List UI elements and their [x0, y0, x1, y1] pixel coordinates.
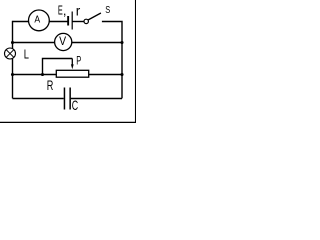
border right edge — [135, 0, 137, 123]
rheostat R body — [56, 70, 88, 77]
ammeter A — [29, 10, 50, 31]
svg-text:L: L — [24, 48, 29, 62]
svg-text:P: P — [76, 54, 81, 68]
wire voltmeter branch left — [13, 42, 55, 44]
wire left side upper (corner to lamp) — [12, 21, 14, 49]
wire left side lower (lamp to bottom corner) — [12, 59, 14, 99]
switch S lever — [88, 13, 101, 20]
svg-text:C: C — [72, 97, 78, 113]
node dot left voltmeter junction — [11, 41, 14, 44]
wire wiper connector — [43, 59, 73, 75]
wire bottom left segment — [13, 98, 64, 100]
svg-text:r: r — [76, 3, 81, 19]
svg-text:S: S — [105, 4, 110, 16]
svg-text:A: A — [34, 14, 40, 26]
node dot right voltmeter junction — [120, 41, 123, 44]
node dot wiper riser junction — [41, 73, 44, 76]
wire rheostat branch left — [13, 74, 57, 76]
switch S hinge — [84, 19, 88, 23]
svg-text:,: , — [63, 3, 67, 18]
capacitor C left plate — [64, 88, 65, 110]
wire bottom right segment — [71, 98, 122, 100]
wire top left segment — [13, 21, 29, 23]
lamp L — [5, 48, 16, 59]
node dot right rheostat junction — [120, 73, 123, 76]
wire voltmeter branch right — [72, 42, 122, 44]
capacitor C right plate — [69, 88, 71, 110]
battery E,r : long thin plate — [72, 12, 73, 30]
wire rheostat branch right — [89, 74, 122, 76]
wire ammeter to battery — [49, 21, 68, 23]
battery E,r : short thick plate — [67, 16, 69, 26]
wire switch to top-right corner and down right side — [102, 22, 122, 99]
rheostat wiper arrow P — [71, 59, 74, 70]
svg-text:V: V — [59, 34, 66, 48]
border bottom edge — [0, 121, 136, 123]
node dot left rheostat junction — [11, 73, 14, 76]
voltmeter V — [55, 33, 72, 50]
svg-text:R: R — [47, 77, 54, 93]
wire battery to switch — [72, 21, 84, 23]
